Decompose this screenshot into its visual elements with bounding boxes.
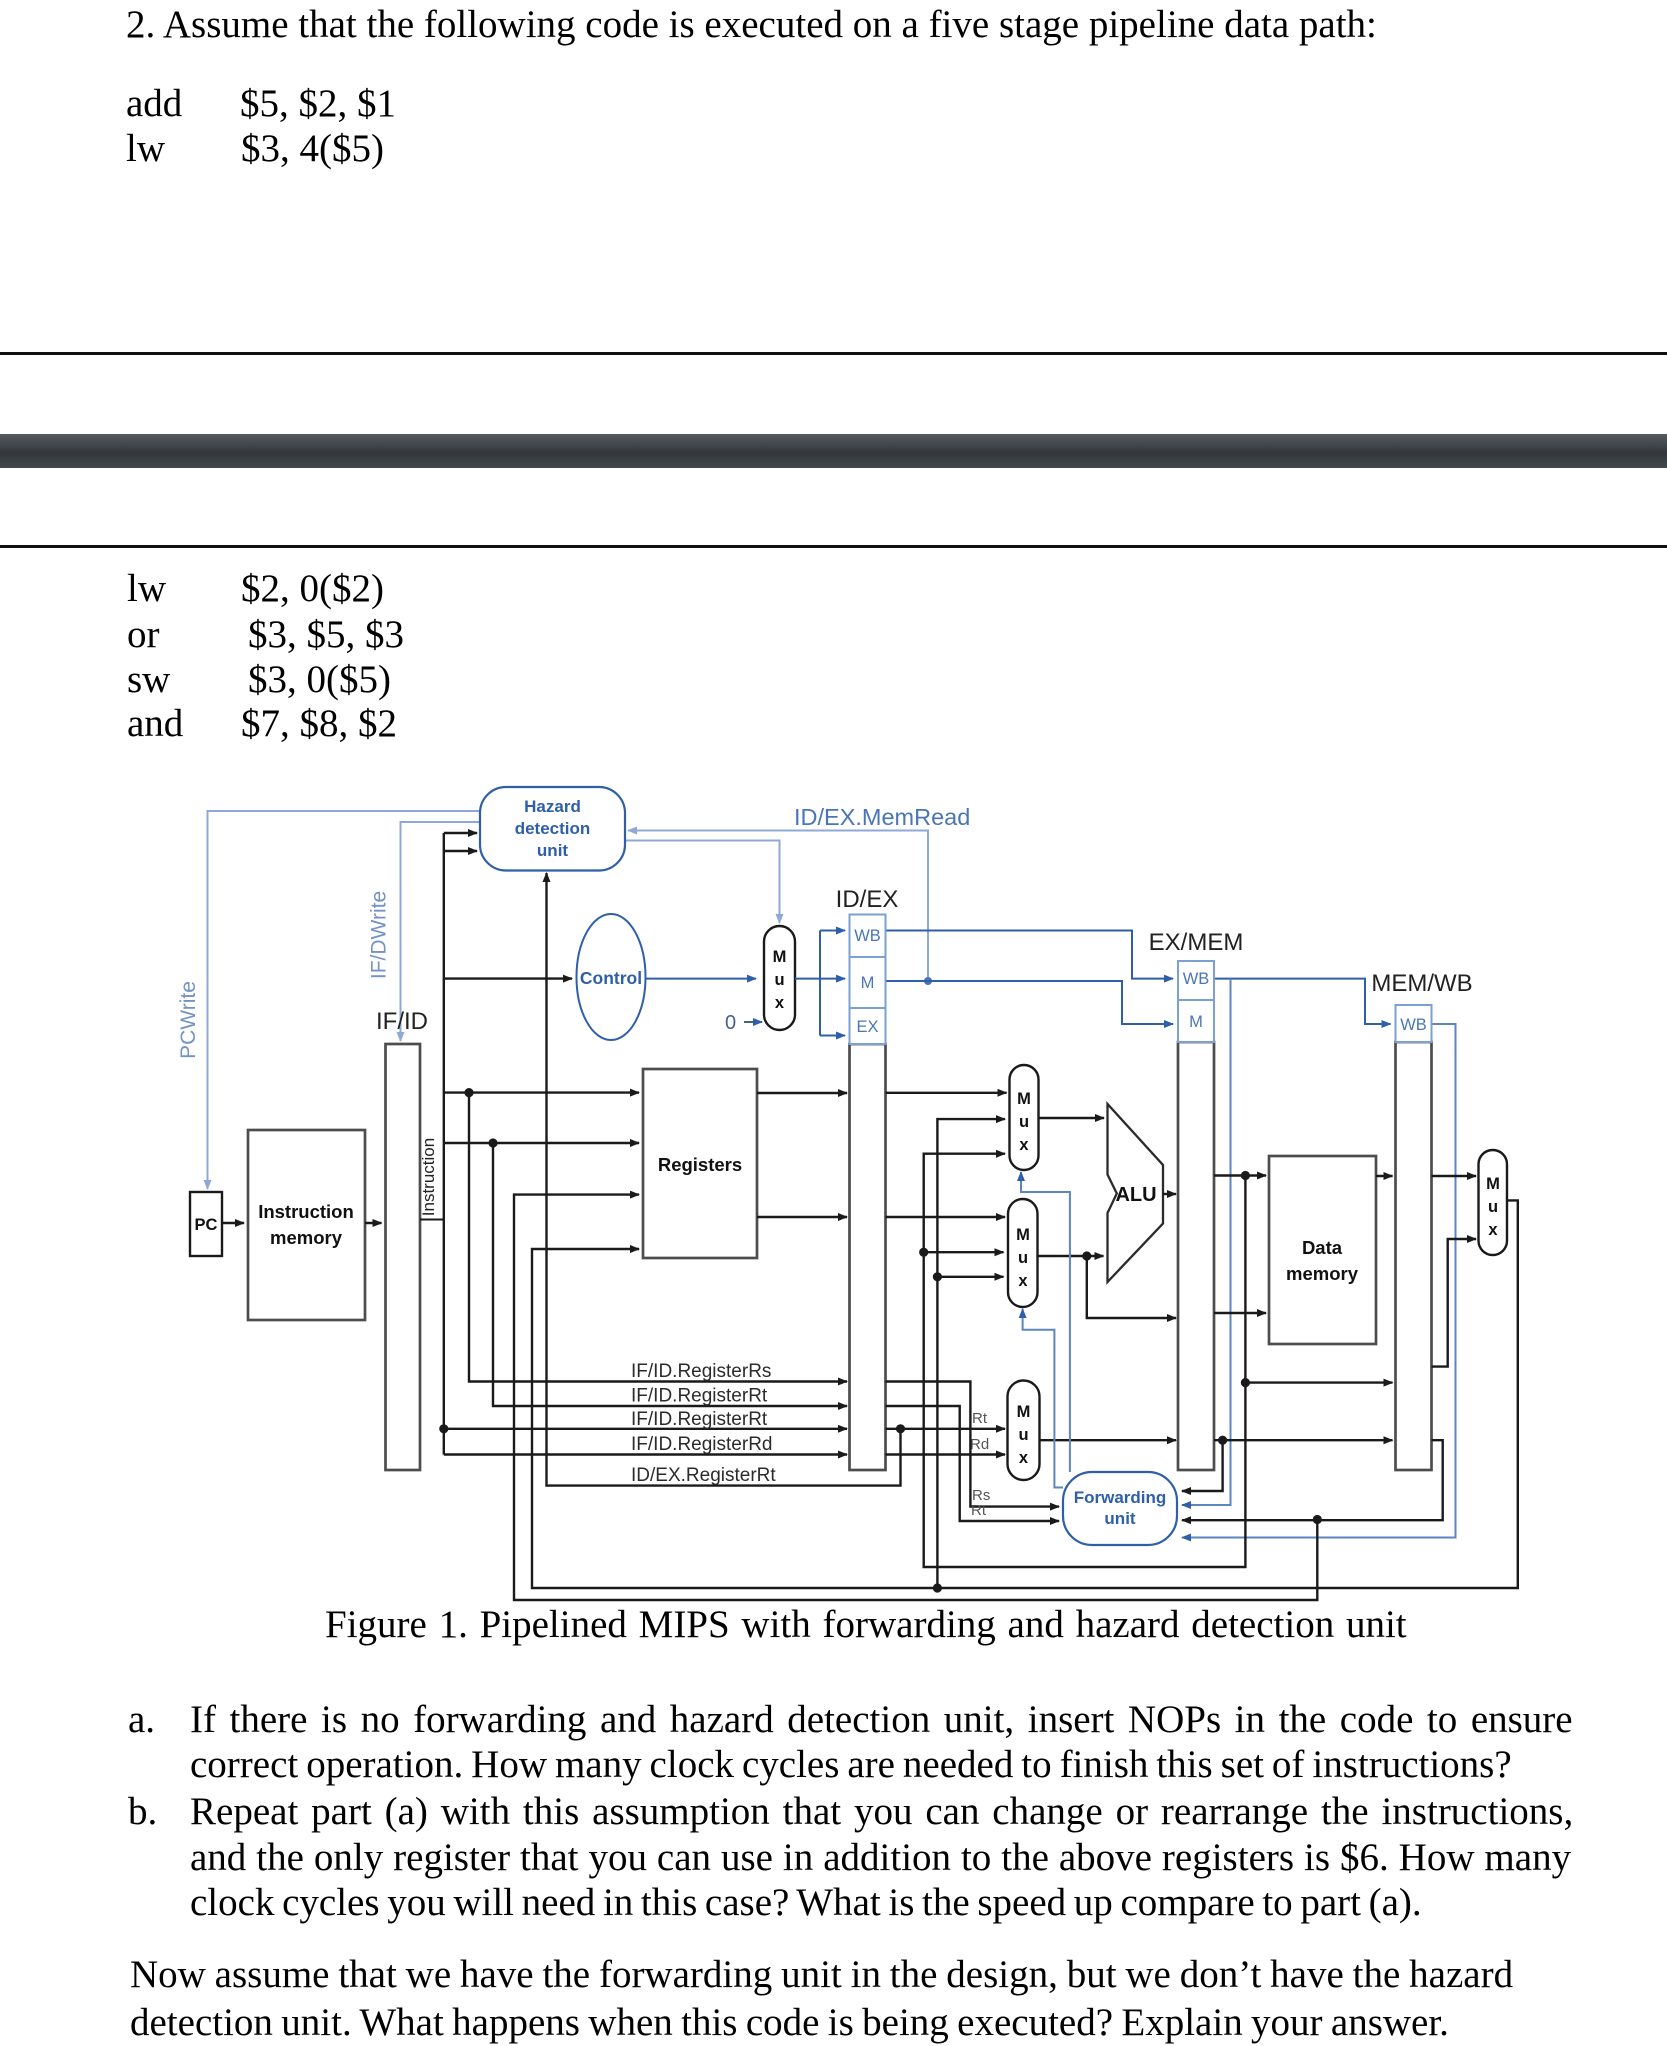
wire bus to control xyxy=(444,977,572,979)
wire muxA to ALU xyxy=(1039,1117,1105,1119)
svg-text:Instruction: Instruction xyxy=(258,1201,354,1222)
svg-text:unit: unit xyxy=(537,841,568,860)
svg-text:WB: WB xyxy=(1183,970,1210,988)
svg-text:PCWrite: PCWrite xyxy=(177,981,200,1059)
svg-text:IF/DWrite: IF/DWrite xyxy=(368,891,391,979)
mux control-bubble xyxy=(764,926,795,1030)
svg-text:Forwarding: Forwarding xyxy=(1074,1488,1167,1507)
registers file xyxy=(643,1069,757,1258)
wire ID/EX.MemRead xyxy=(628,804,970,985)
mux forwardB xyxy=(1008,1199,1038,1307)
wire EX/MEM WB to forwarding unit xyxy=(1182,979,1231,1505)
wire MEM/WB forward riser xyxy=(933,1119,1005,1588)
svg-text:u: u xyxy=(1488,1198,1498,1216)
svg-text:PC: PC xyxy=(195,1216,218,1234)
separator lines xyxy=(0,352,1667,355)
svg-text:x: x xyxy=(775,994,785,1012)
wire hazard to mux select xyxy=(625,841,780,924)
svg-text:Rd: Rd xyxy=(970,1436,989,1453)
PC register xyxy=(190,1192,222,1256)
svg-text:0: 0 xyxy=(725,1012,736,1034)
svg-text:Control: Control xyxy=(580,968,642,988)
wire ID/EX Rs to forwarding xyxy=(886,1382,1060,1507)
wire write data path xyxy=(532,1200,1518,1592)
mux3 Rt/Rd xyxy=(1008,1381,1040,1481)
hazard detection unit U1 xyxy=(480,787,625,871)
svg-text:ID/EX.MemRead: ID/EX.MemRead xyxy=(794,804,970,830)
wire read data 1 xyxy=(757,1092,847,1094)
wire ID/EX to muxA input1 xyxy=(886,1092,1007,1094)
svg-text:x: x xyxy=(1019,1449,1029,1467)
wire ID/EX WB to EX/MEM WB xyxy=(886,931,1174,979)
svg-text:x: x xyxy=(1018,1272,1028,1290)
wire muxB to ALU and EX/MEM xyxy=(1038,1251,1177,1318)
wire EX/MEM forward riser xyxy=(919,1154,1245,1567)
wire PCWrite xyxy=(177,811,480,1189)
wire forwardA select xyxy=(1021,1172,1070,1472)
wire ID/EX Rd to mux3 xyxy=(886,1436,1006,1455)
svg-text:M: M xyxy=(1486,1175,1500,1193)
svg-text:u: u xyxy=(1018,1426,1028,1444)
label Instruction xyxy=(419,1138,444,1220)
svg-text:EX: EX xyxy=(856,1018,878,1036)
wire forwardB select xyxy=(1023,1309,1063,1488)
mux final xyxy=(1479,1150,1508,1255)
wire EX/MEM WB to MEM/WB WB xyxy=(1214,979,1391,1024)
wire EX/MEM Rd to MEM/WB and forwarding xyxy=(1182,1436,1393,1491)
wire MEM/WB to final mux xyxy=(1432,1175,1477,1177)
svg-text:Hazard: Hazard xyxy=(524,797,581,816)
svg-text:M: M xyxy=(1017,1090,1031,1108)
forwarding unit U2 xyxy=(1063,1472,1177,1545)
svg-text:x: x xyxy=(1019,1136,1029,1154)
label 0 constant xyxy=(725,1012,762,1034)
svg-text:IF/ID.RegisterRt: IF/ID.RegisterRt xyxy=(631,1386,768,1407)
svg-text:Data: Data xyxy=(1302,1237,1343,1258)
svg-text:unit: unit xyxy=(1104,1509,1135,1528)
svg-text:Rt: Rt xyxy=(971,1502,987,1519)
svg-text:M: M xyxy=(773,948,787,966)
register IF/ID xyxy=(376,1008,428,1470)
svg-text:MEM/WB: MEM/WB xyxy=(1371,970,1472,997)
svg-text:memory: memory xyxy=(1286,1263,1359,1284)
wire ID/EX M to EX/MEM M xyxy=(886,981,1174,1024)
wire MEM/WB Rd to forwarding xyxy=(1182,1440,1443,1520)
svg-text:memory: memory xyxy=(270,1227,343,1248)
wire IF/DWrite xyxy=(368,822,481,1041)
wire IF/ID.RegisterRs xyxy=(469,1093,847,1382)
wire MEM/WB WB to forwarding unit xyxy=(1182,1024,1456,1538)
wire instruction bus xyxy=(444,833,477,1455)
svg-text:EX/MEM: EX/MEM xyxy=(1149,929,1244,956)
wire IF/ID.RegisterRt 2 xyxy=(439,1409,847,1433)
wire instruction memory to IF/ID xyxy=(365,1222,382,1224)
svg-text:detection: detection xyxy=(515,819,591,838)
svg-text:ID/EX.RegisterRt: ID/EX.RegisterRt xyxy=(631,1465,776,1486)
wire ID/EX Rt to mux3 xyxy=(886,1410,1006,1429)
wire mux to ID/EX control bundle xyxy=(795,931,845,1036)
wire ID/EX.RegisterRt to hazard xyxy=(547,873,906,1486)
wire MEM/WB ALU passthrough xyxy=(1432,1239,1477,1367)
top problem text xyxy=(126,5,1377,44)
svg-text:u: u xyxy=(1019,1113,1029,1131)
register ID/EX xyxy=(836,886,899,1470)
control unit xyxy=(577,914,646,1040)
wire EX/MEM result to MEM/WB xyxy=(1241,1176,1393,1388)
svg-text:u: u xyxy=(1018,1249,1028,1267)
wire ALU result to EX/MEM xyxy=(1163,1193,1176,1195)
wire read register 2 xyxy=(444,1138,639,1147)
wire PC to instruction memory xyxy=(222,1222,244,1224)
data memory xyxy=(1269,1156,1376,1344)
wire IF/ID.RegisterRd xyxy=(444,1434,847,1455)
bottom problem text xyxy=(128,1700,155,1739)
svg-text:IF/ID.RegisterRs: IF/ID.RegisterRs xyxy=(631,1361,771,1382)
svg-text:M: M xyxy=(1017,1403,1031,1421)
wire EX/MEM result to data memory xyxy=(1214,1171,1266,1180)
svg-text:IF/ID: IF/ID xyxy=(376,1008,428,1035)
svg-text:M: M xyxy=(1016,1226,1030,1244)
svg-text:IF/ID.RegisterRd: IF/ID.RegisterRd xyxy=(631,1434,772,1455)
wire mux3 to EX/MEM xyxy=(1040,1439,1177,1441)
svg-text:WB: WB xyxy=(854,927,881,945)
wire write register path xyxy=(514,1195,1322,1600)
mux forwardA xyxy=(1010,1065,1039,1170)
wire IF/ID.RegisterRt 1 xyxy=(493,1143,847,1407)
svg-text:WB: WB xyxy=(1400,1016,1427,1034)
instruction memory xyxy=(248,1130,365,1320)
wire ID/EX to muxB input1 xyxy=(886,1216,1006,1218)
svg-text:M: M xyxy=(861,974,875,992)
svg-text:ALU: ALU xyxy=(1115,1184,1156,1206)
second code block xyxy=(127,569,166,608)
svg-text:x: x xyxy=(1488,1221,1498,1239)
register MEM/WB xyxy=(1371,970,1472,1470)
svg-text:Rt: Rt xyxy=(972,1410,988,1427)
wire data memory to MEM/WB xyxy=(1376,1175,1393,1177)
svg-text:u: u xyxy=(774,971,784,989)
register EX/MEM xyxy=(1149,929,1244,1470)
svg-text:IF/ID.RegisterRt: IF/ID.RegisterRt xyxy=(631,1409,768,1430)
svg-text:Registers: Registers xyxy=(658,1154,742,1175)
svg-text:ID/EX: ID/EX xyxy=(836,886,899,913)
wire ID/EX Rt to forwarding xyxy=(886,1406,1060,1521)
wire read data 2 xyxy=(757,1216,847,1218)
figure caption xyxy=(325,1605,1407,1644)
svg-text:Instruction: Instruction xyxy=(419,1138,438,1216)
svg-text:M: M xyxy=(1189,1013,1203,1031)
wire control to mux xyxy=(646,978,757,980)
wire EX/MEM store data to data memory xyxy=(1214,1312,1266,1314)
wire read register 1 xyxy=(444,1088,639,1097)
ALU xyxy=(1108,1104,1164,1282)
